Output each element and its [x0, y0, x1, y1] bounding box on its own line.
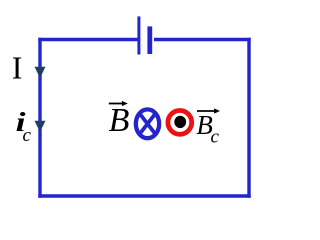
svg-text:B: B: [109, 102, 130, 139]
field symbol Bc out of page (circle with dot): [168, 111, 192, 135]
label B vector arrow: [109, 103, 125, 105]
svg-text:c: c: [211, 127, 220, 148]
wire: bottom segment: [38, 194, 250, 197]
battery: long plate (positive terminal): [137, 16, 140, 54]
field symbol B into page (circle with X): [136, 109, 159, 138]
wire: top left segment: [38, 38, 137, 41]
svg-text:c: c: [23, 125, 32, 146]
current arrow I (down): [35, 67, 46, 78]
svg-text:I: I: [12, 50, 23, 86]
label Bc vector arrow: [197, 110, 217, 112]
battery: short plate (negative terminal): [147, 26, 152, 54]
wire: right segment: [247, 38, 250, 198]
current arrow ic (down): [35, 121, 46, 132]
wire: left segment: [38, 38, 41, 198]
wire: top right segment: [154, 38, 251, 41]
